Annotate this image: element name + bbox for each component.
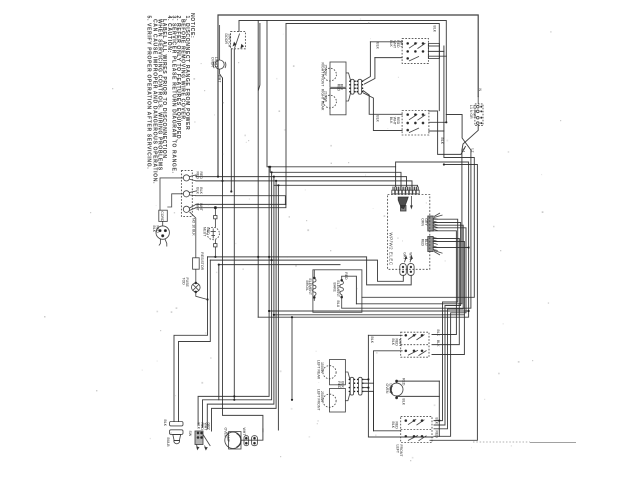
ERC bottom plug pill B: [408, 264, 415, 276]
wire LF to plug: [345, 392, 350, 400]
wire RR out 2: [429, 121, 446, 123]
wire RF switch feed b: [375, 57, 402, 59]
oven light bulb: [173, 434, 181, 440]
svg-text:L1: L1: [462, 149, 466, 153]
scan noise speckles: [276, 78, 278, 80]
svg-text:WHT: WHT: [242, 428, 246, 437]
oven indicator light: [390, 383, 403, 396]
wire LR frame left: [368, 335, 433, 437]
wire bake drop to band: [291, 317, 293, 400]
svg-text:BLK: BLK: [163, 420, 167, 427]
fork J2: [189, 191, 196, 196]
svg-text:RED: RED: [396, 117, 400, 125]
connector plug pill D: [359, 377, 363, 395]
svg-text:NO 16 BLK: NO 16 BLK: [191, 218, 195, 236]
svg-text:TOD: TOD: [182, 278, 186, 286]
wire fuse chain down: [174, 257, 208, 422]
pins plug C: [349, 379, 351, 381]
svg-text:RED: RED: [155, 226, 159, 234]
svg-text:LEFT: LEFT: [396, 445, 400, 454]
LF infinite switch dashed: [401, 417, 432, 443]
svg-text:2500W: 2500W: [320, 391, 324, 403]
junction terminal block dashed: [181, 171, 192, 217]
svg-text:LEFT FRONT: LEFT FRONT: [317, 389, 321, 411]
oven lamp housing: [229, 432, 241, 449]
svg-text:LAMP: LAMP: [226, 433, 230, 443]
wire c3 lower run: [196, 204, 286, 207]
ERC transformer blob: [398, 197, 408, 209]
RF infinite switch: [402, 38, 428, 63]
pins plug D: [357, 379, 359, 381]
svg-text:WHT: WHT: [398, 339, 402, 348]
svg-text:RED: RED: [196, 172, 200, 180]
wire L1 top frame: [218, 15, 478, 177]
lamp connector a: [244, 436, 249, 446]
svg-text:GRY: GRY: [207, 423, 211, 431]
wire spine s3: [207, 185, 274, 429]
wire header1 f3: [433, 225, 463, 429]
wire indicator right drop: [438, 381, 440, 436]
wire twist L1: [356, 126, 478, 304]
terminal bar 1: [170, 422, 184, 426]
svg-text:OVEN: OVEN: [385, 384, 389, 394]
svg-text:BAKE: BAKE: [333, 283, 337, 293]
bottom scan artifact line dashed: [473, 441, 530, 443]
wire J1 to cord: [160, 178, 183, 210]
wire header1 f4: [433, 228, 466, 436]
ERC bottom plug arrows: [405, 257, 412, 262]
wire neutral top run: [286, 24, 439, 205]
wire erc arrow: [410, 196, 412, 207]
svg-text:BLK: BLK: [340, 84, 344, 91]
lamp connector b: [252, 436, 258, 446]
oven element box: [313, 270, 362, 313]
wire ERC L1 loop long: [258, 162, 468, 317]
ERC terminal strip squares: [392, 190, 395, 194]
wire bus L4: [196, 181, 412, 187]
wire fuse out: [196, 292, 208, 300]
svg-text:RIGHT FRONT: RIGHT FRONT: [320, 63, 324, 88]
junction ring J2: [183, 191, 189, 197]
wire indicator top: [397, 380, 440, 382]
wire pill w3: [364, 387, 368, 389]
resistor R1: [193, 258, 200, 269]
ground chain top square: [214, 216, 217, 219]
svg-text:RED: RED: [344, 272, 348, 280]
wire LR top feed: [368, 334, 402, 336]
svg-text:RED: RED: [434, 431, 438, 439]
svg-text:BLK: BLK: [391, 422, 395, 429]
wire header1 f1: [433, 219, 458, 420]
wire lower band b2: [274, 314, 465, 316]
svg-text:BLU: BLU: [424, 239, 428, 246]
svg-text:BLU: BLU: [336, 301, 340, 308]
pins plug B: [357, 80, 359, 82]
wire header2 g2: [432, 242, 464, 355]
wire ground stub 3: [214, 240, 216, 244]
junction ring J1: [183, 175, 189, 181]
left front burner LF: [323, 394, 336, 407]
svg-text:BLK: BLK: [436, 330, 440, 337]
wire LR row2 feed: [374, 351, 403, 431]
svg-text:BROIL: BROIL: [305, 281, 309, 292]
svg-text:2100W: 2100W: [324, 91, 328, 103]
svg-text:BLK: BLK: [432, 26, 436, 33]
wire cord leg a: [159, 239, 161, 246]
ERC header P1: [428, 216, 433, 231]
svg-text:CORD: CORD: [160, 211, 164, 222]
svg-text:BLK: BLK: [434, 418, 438, 425]
svg-text:ELEMENT: ELEMENT: [336, 281, 340, 298]
wire RR out 1: [429, 111, 466, 154]
wire RR to plug: [346, 93, 351, 102]
wire spine s2: [203, 172, 272, 427]
door light switch cluster: [195, 431, 203, 445]
wire c3 run: [196, 203, 285, 205]
svg-text:WHT: WHT: [218, 75, 222, 84]
svg-text:1500W: 1500W: [320, 362, 324, 374]
oven lamp: [225, 432, 241, 448]
svg-text:RED: RED: [394, 339, 398, 347]
wire oven light stub top: [219, 25, 221, 60]
svg-text:BLK: BLK: [436, 340, 440, 347]
chassis ground symbol: [207, 227, 219, 239]
ERC pin hatch: [393, 187, 418, 191]
wire bus L1: [267, 21, 396, 187]
svg-text:GRD: GRD: [206, 227, 210, 235]
terminal bar 2: [170, 430, 184, 435]
RR infinite switch: [402, 111, 429, 136]
wire cord leg b: [165, 239, 167, 247]
wire RF switch feed a: [370, 41, 402, 43]
wire bus L5: [274, 177, 418, 187]
svg-text:GRY: GRY: [403, 252, 407, 260]
pins plug A: [349, 80, 351, 82]
wire spine s1: [198, 167, 269, 425]
wire RF switch feed a drop: [364, 42, 371, 81]
left rear element box: [330, 360, 346, 385]
svg-text:DOOR: DOOR: [224, 34, 228, 45]
junction dots: [217, 176, 219, 178]
svg-text:BLK: BLK: [376, 115, 380, 122]
wire RF out 1: [428, 45, 439, 47]
wire RF out 2: [428, 50, 444, 52]
thermal fuse TOD: [192, 283, 201, 292]
svg-text:WP/W2 ELEC: WP/W2 ELEC: [388, 233, 393, 266]
wire resistor to fuse: [195, 269, 197, 283]
wire RF to plug: [346, 73, 351, 81]
svg-text:LIGHT: LIGHT: [214, 57, 218, 68]
svg-text:BLK: BLK: [376, 42, 380, 49]
svg-text:WHT: WHT: [408, 252, 412, 261]
wire oven light stub bottom: [220, 69, 223, 181]
wire spine left b: [258, 24, 260, 91]
wire cord neck: [162, 221, 164, 226]
wire LR to plug: [345, 372, 350, 380]
wire header2 g1: [432, 239, 459, 345]
left front element box: [330, 389, 346, 413]
power terminal strip dashed: [475, 104, 483, 126]
wire spine s5: [277, 185, 279, 430]
svg-text:LIGHT: LIGHT: [388, 384, 392, 395]
wire header2 g4: [433, 247, 468, 249]
oven light B1: [215, 60, 224, 69]
cord terminal rect: [159, 210, 168, 221]
svg-text:RED: RED: [199, 172, 203, 180]
svg-text:BLK: BLK: [340, 381, 344, 388]
wire RR out 3: [429, 130, 444, 132]
fork J1: [189, 175, 196, 181]
svg-text:L2 PWR: L2 PWR: [472, 105, 476, 119]
wire lower band b1: [269, 310, 469, 312]
right rear element box: [330, 88, 346, 114]
power cord plug P1: [156, 226, 169, 239]
wire right loop A: [362, 46, 474, 297]
wire ground stub 2: [214, 219, 216, 228]
wire door switch leg b: [233, 49, 235, 400]
svg-text:L2: L2: [471, 149, 475, 153]
wire J2 to cord: [167, 194, 183, 207]
wire right outer loop: [430, 165, 477, 441]
connector plug pill A: [351, 79, 354, 94]
wire pill w1: [364, 378, 368, 380]
svg-text:FUSE: FUSE: [185, 278, 189, 288]
wire door switch feed top: [239, 21, 446, 123]
svg-text:WHT: WHT: [199, 203, 203, 212]
wire RR switch feed a: [363, 91, 402, 115]
wire RF out 3: [428, 55, 446, 57]
wire c2 zigzag: [196, 196, 285, 205]
wire erc bottom 2: [210, 260, 403, 281]
wire RR switch feed b: [364, 93, 403, 131]
wire header1 f2: [433, 223, 460, 426]
svg-text:RESISTOR: RESISTOR: [200, 252, 204, 270]
junction ring J3: [183, 206, 189, 212]
right rear burner RR: [324, 95, 337, 108]
svg-text:RED: RED: [402, 378, 406, 386]
svg-text:BLK: BLK: [197, 423, 201, 430]
svg-text:GRY: GRY: [399, 40, 403, 48]
wire twist L2: [342, 115, 471, 309]
svg-text:ELEMENT: ELEMENT: [308, 279, 312, 296]
svg-text:RED: RED: [394, 422, 398, 430]
scan speckles: [44, 316, 46, 318]
door switch S1: [231, 31, 246, 48]
svg-text:BLK: BLK: [391, 339, 395, 346]
wire lamp tick: [262, 428, 264, 432]
broil element coil: [313, 279, 316, 296]
wire fuse chain down b: [179, 260, 211, 421]
wire bake top jog: [342, 276, 357, 304]
ERC bottom plug pill A: [400, 264, 407, 276]
wire indicator bottom: [397, 395, 440, 397]
ERC header P2: [428, 237, 433, 252]
control board ERC dashed box: [388, 195, 430, 270]
wire spine s4: [212, 181, 277, 431]
wire spine left: [257, 21, 259, 318]
svg-text:BLK: BLK: [199, 187, 203, 194]
svg-text:BLK: BLK: [152, 226, 156, 233]
right front element box: [330, 62, 346, 87]
svg-text:BLK: BLK: [440, 138, 444, 145]
svg-text:BLK: BLK: [370, 337, 374, 344]
ground chain bottom square: [214, 244, 217, 247]
wire pill w2: [364, 382, 373, 384]
left rear burner LR: [323, 366, 336, 379]
fork J3: [189, 204, 196, 210]
LR infinite switch dashed: [401, 332, 429, 357]
wire RF switch feed b drop: [365, 58, 375, 84]
wire erc bottom 1: [208, 257, 412, 285]
wire strip stub top: [477, 97, 479, 104]
svg-text:FRONT: FRONT: [399, 445, 403, 458]
wire erc bottom 3: [219, 265, 340, 400]
bake element coil: [340, 281, 343, 296]
wire bus L3: [196, 177, 407, 187]
svg-text:BLK: BLK: [402, 399, 406, 406]
wire header1 f5: [432, 231, 456, 335]
svg-text:L1 N GR: L1 N GR: [469, 105, 473, 119]
wire J3 to resistor: [190, 212, 196, 258]
svg-text:SWITCH: SWITCH: [227, 34, 231, 48]
wire oven lamp feed: [223, 78, 263, 440]
right front burner RF: [324, 68, 337, 81]
connector plug pill B: [358, 79, 362, 94]
svg-text:BULB: BULB: [166, 438, 170, 448]
bottom scan artifact line solid: [530, 442, 576, 444]
svg-text:GRY: GRY: [424, 218, 428, 226]
svg-text:5. VERIFY PROPER OPERATION AFT: 5. VERIFY PROPER OPERATION AFTER SERVICI…: [146, 16, 152, 170]
svg-text:LEFT REAR: LEFT REAR: [317, 360, 321, 380]
wire pill w4: [364, 391, 401, 430]
RF pilot box: [428, 43, 439, 58]
svg-text:2500W: 2500W: [324, 65, 328, 77]
connector plug pill C: [350, 377, 353, 395]
terminal pins: [477, 105, 480, 108]
svg-text:SW: SW: [188, 431, 192, 437]
wire bus L2: [270, 167, 401, 187]
wire ground stub 4: [214, 247, 216, 257]
wire ground stub 1: [214, 208, 216, 216]
wire door switch leg a: [230, 49, 232, 192]
